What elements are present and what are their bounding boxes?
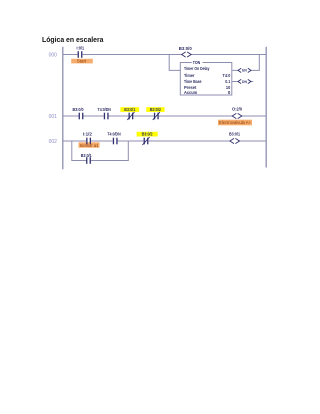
svg-text:TON: TON — [193, 60, 201, 65]
svg-text:Electrovalvula A+: Electrovalvula A+ — [219, 120, 251, 125]
svg-text:I:1/2: I:1/2 — [83, 131, 92, 136]
svg-text:B3:0/2: B3:0/2 — [142, 132, 153, 137]
svg-text:O:2/0: O:2/0 — [232, 106, 242, 111]
svg-text:DN: DN — [242, 80, 247, 84]
svg-text:Sensor a1: Sensor a1 — [80, 143, 100, 148]
svg-text:B3:0/0: B3:0/0 — [73, 107, 84, 112]
svg-text:Timer: Timer — [184, 73, 195, 78]
svg-text:Lógica en escalera: Lógica en escalera — [42, 37, 104, 44]
svg-text:B3:0/0: B3:0/0 — [179, 46, 192, 51]
svg-text:T4:0/DN: T4:0/DN — [107, 131, 120, 136]
svg-text:B3:0/2: B3:0/2 — [150, 107, 161, 112]
svg-text:EN: EN — [242, 69, 247, 73]
svg-text:Start: Start — [77, 59, 87, 64]
svg-text:000: 000 — [49, 52, 58, 58]
svg-text:I:0/1: I:0/1 — [77, 45, 85, 50]
svg-text:B3:0/1: B3:0/1 — [124, 107, 135, 112]
svg-text:Timer On Delay: Timer On Delay — [184, 66, 210, 71]
svg-text:B3:0/1: B3:0/1 — [229, 132, 240, 137]
svg-text:Time Base: Time Base — [184, 79, 202, 84]
svg-text:T4:0/DN: T4:0/DN — [98, 107, 111, 112]
svg-text:001: 001 — [49, 114, 58, 120]
svg-text:002: 002 — [49, 139, 58, 145]
svg-text:B3:0/1: B3:0/1 — [81, 153, 92, 158]
svg-text:T4:0: T4:0 — [223, 73, 231, 78]
svg-text:0.1: 0.1 — [225, 79, 230, 84]
svg-text:Accum: Accum — [184, 90, 197, 95]
